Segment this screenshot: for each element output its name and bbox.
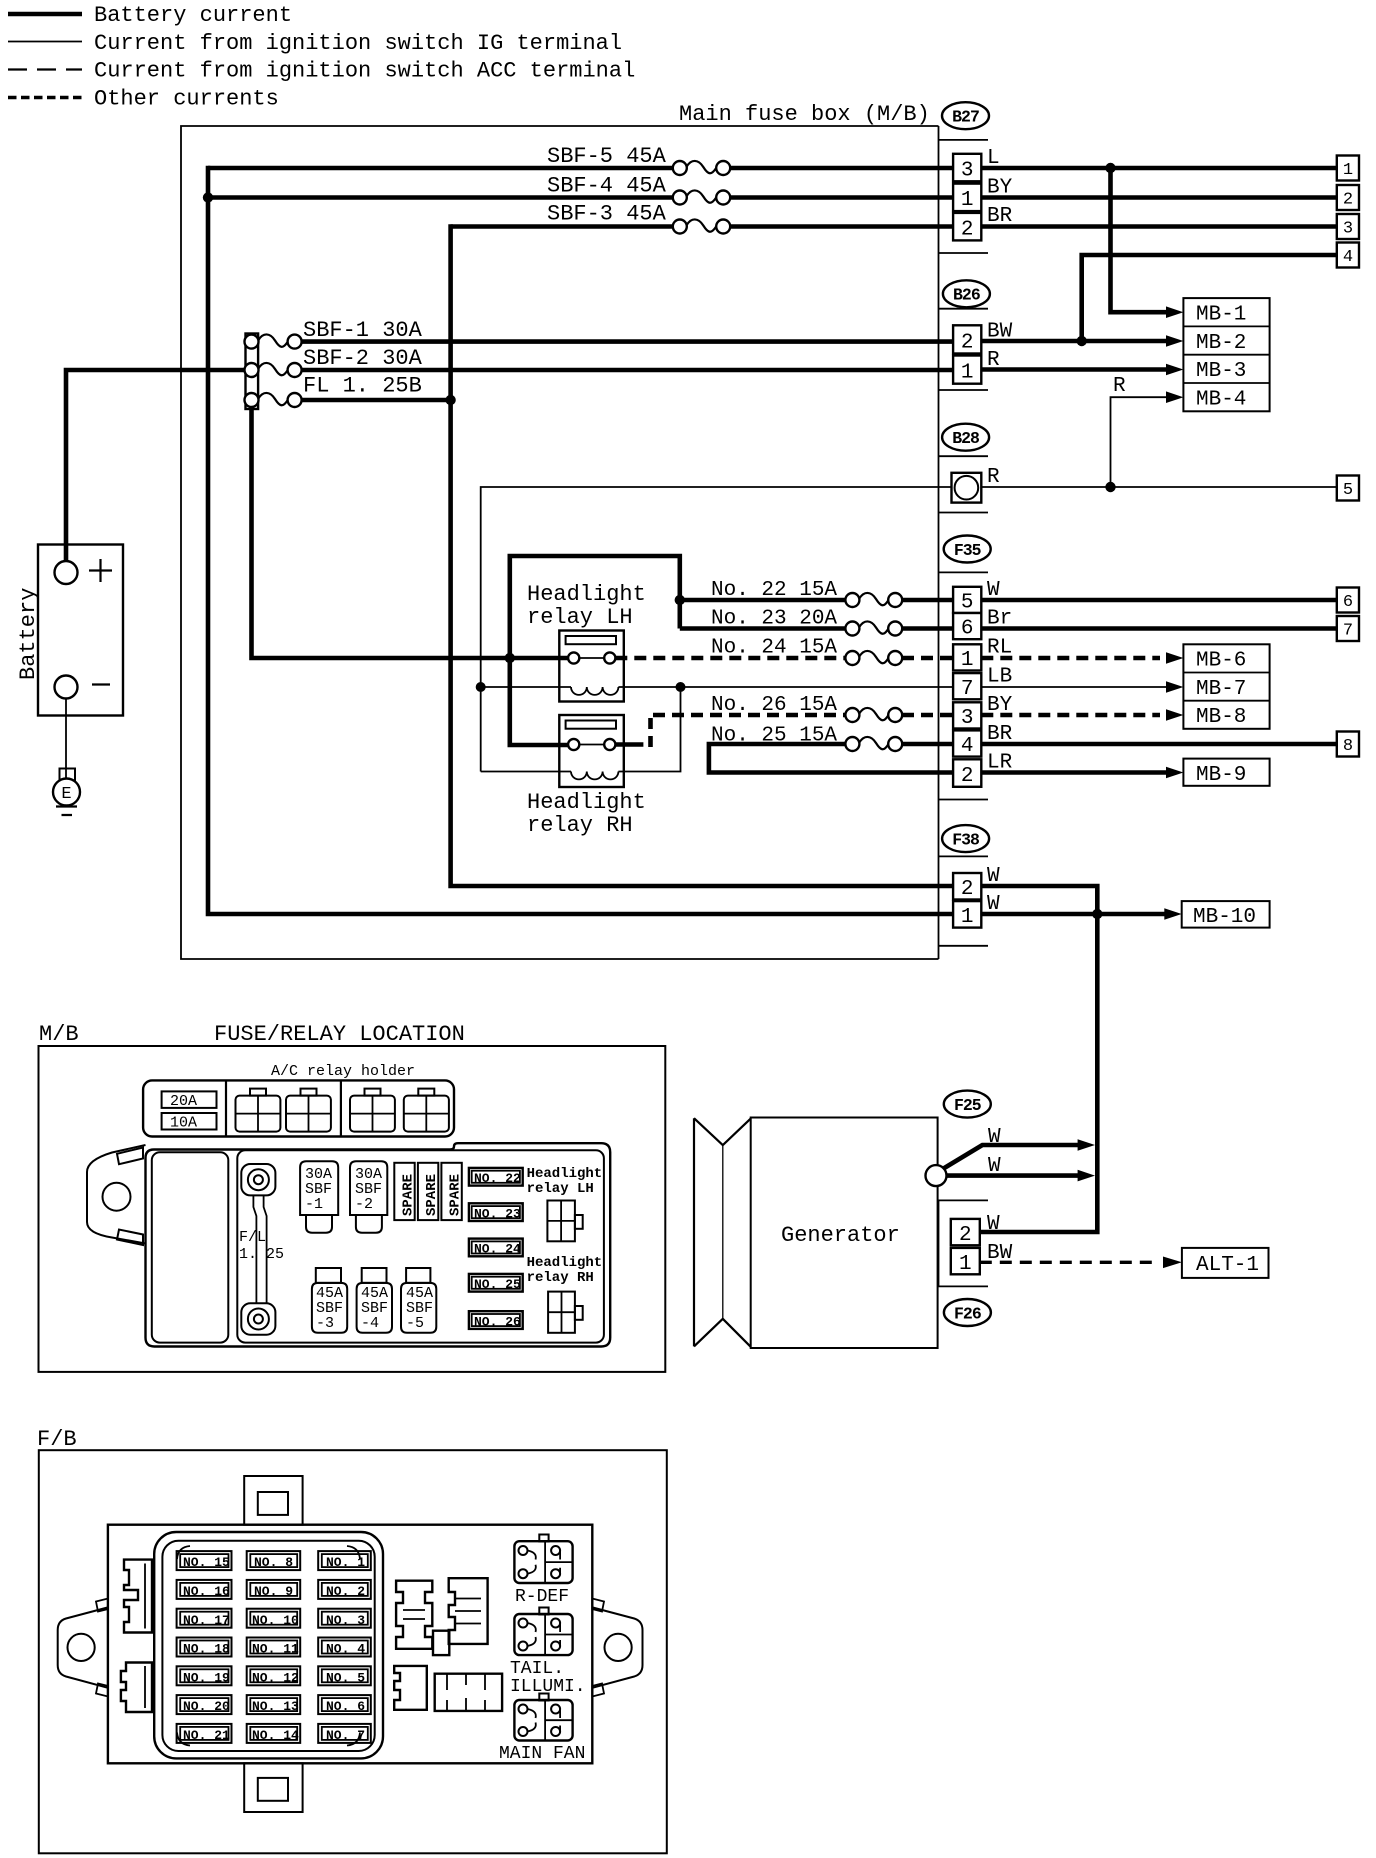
connector F38 pin 2 (953, 873, 981, 901)
F/L 1.25 link body (253, 1195, 266, 1303)
MB-10 box (1182, 901, 1270, 929)
svg-text:MB-8: MB-8 (1196, 706, 1246, 729)
svg-text:2: 2 (961, 331, 974, 354)
svg-text:NO. 22: NO. 22 (474, 1171, 521, 1186)
wire battery negative to ground (65, 699, 67, 779)
wire SBF-3 line (451, 224, 953, 229)
F/B fuse NO. 18 (177, 1638, 232, 1657)
svg-text:Headlight: Headlight (527, 790, 646, 815)
svg-text:M/B: M/B (39, 1022, 79, 1047)
svg-text:NO. 19: NO. 19 (183, 1670, 230, 1685)
F/B fuse NO. 8 (247, 1551, 301, 1570)
A/C relay holder box (143, 1080, 454, 1136)
svg-text:A/C relay holder: A/C relay holder (271, 1063, 415, 1080)
wire W F38-1 to MB-10 (981, 912, 1166, 917)
wire R branch to MB-4 (1111, 397, 1169, 487)
terminal box 6 (1337, 588, 1359, 613)
connector B26 pin 2 (953, 325, 981, 354)
A/C holder divider 2 (340, 1080, 342, 1136)
fuse No.26 15A (711, 694, 902, 722)
F/B middle small square (433, 1631, 449, 1655)
fuse No.23 20A (711, 608, 902, 636)
svg-text:No. 22 15A: No. 22 15A (711, 579, 837, 602)
connector B28 oval (942, 424, 989, 451)
wire battery positive feed (66, 370, 246, 564)
A/C relay socket 4 (404, 1089, 449, 1132)
connector F35 pin 4 (953, 730, 981, 758)
connector F38 pin 1 (953, 901, 981, 929)
legend IG sample line (8, 41, 82, 43)
battery - terminal (55, 676, 78, 699)
svg-text:relay RH: relay RH (527, 1270, 594, 1286)
M/B main compartment (237, 1150, 604, 1342)
wire Br to terminal 7 (981, 626, 1337, 631)
junction R node (1105, 482, 1115, 492)
F/B fuse NO. 13 (247, 1695, 301, 1714)
svg-text:MB-9: MB-9 (1196, 764, 1246, 787)
F/B middle connector C (394, 1666, 427, 1710)
svg-text:NO. 12: NO. 12 (252, 1670, 299, 1685)
fuse 30A SBF-2 (350, 1161, 387, 1232)
svg-text:SPARE: SPARE (448, 1174, 464, 1216)
wire BR to terminal 8 (981, 742, 1337, 747)
fuse 30A SBF-1 (300, 1161, 338, 1232)
svg-text:R-DEF: R-DEF (515, 1587, 569, 1607)
svg-text:-3: -3 (316, 1315, 334, 1332)
wire R to MB-3 (981, 367, 1168, 372)
relay RH box (559, 715, 624, 787)
junction SBF-4 tee (203, 192, 213, 202)
wire BW dashed to ALT-1 (980, 1261, 1158, 1264)
svg-text:NO. 6: NO. 6 (326, 1699, 365, 1714)
arrow into MB-6 (1166, 652, 1183, 664)
svg-text:Generator: Generator (781, 1223, 900, 1248)
wire SBF-1 output to B26 pin 2 (295, 339, 953, 344)
svg-text:NO. 10: NO. 10 (252, 1613, 299, 1628)
svg-text:MB-7: MB-7 (1196, 678, 1246, 701)
wire SBF-2 output to B26 pin 1 (295, 368, 953, 373)
generator connector spine (939, 1200, 989, 1286)
spare fuse 3 (441, 1163, 463, 1220)
svg-text:SBF-1 30A: SBF-1 30A (303, 318, 423, 343)
generator pulley (694, 1118, 751, 1347)
connector F35 oval (944, 536, 991, 563)
svg-text:MB-3: MB-3 (1196, 360, 1246, 383)
svg-text:SBF-3 45A: SBF-3 45A (547, 202, 667, 227)
svg-text:MB-1: MB-1 (1196, 304, 1246, 327)
wire generator W line upper (941, 1145, 1080, 1170)
svg-text:NO. 17: NO. 17 (183, 1613, 230, 1628)
svg-text:NO. 21: NO. 21 (183, 1728, 230, 1743)
svg-text:NO. 9: NO. 9 (254, 1584, 293, 1599)
F/B fuse NO. 6 (318, 1695, 371, 1714)
F/B fuse NO. 20 (177, 1695, 232, 1714)
F/B left connector lower (121, 1663, 152, 1713)
junction BW branch (1077, 336, 1087, 346)
wire L branch to MB-1 (1111, 168, 1169, 312)
svg-text:6: 6 (1343, 593, 1353, 612)
arrow W upper into bus (1078, 1139, 1095, 1151)
wire No.24 dashed line from relay LH output (615, 656, 953, 661)
svg-text:R: R (1113, 375, 1126, 398)
20A fuse box (162, 1091, 217, 1110)
generator output terminal circle (926, 1165, 947, 1186)
fuse SBF-2 30A (245, 346, 423, 377)
F/B fuse NO. 17 (177, 1609, 232, 1628)
F/B fuse NO. 12 (247, 1666, 301, 1685)
wire No.22 line (680, 598, 953, 603)
F/B outer frame (39, 1450, 667, 1853)
terminal box 2 (1337, 185, 1359, 210)
svg-text:NO. 14: NO. 14 (252, 1728, 299, 1743)
wire LH coil line to F35 pin 7 (481, 686, 953, 688)
A/C holder divider 1 (225, 1080, 227, 1136)
svg-text:1: 1 (961, 189, 974, 212)
wire W F38-2 to generator bus (980, 886, 1098, 1232)
svg-text:Other currents: Other currents (94, 87, 279, 112)
F/L 1.25 fusible link bottom terminal (241, 1303, 275, 1334)
svg-text:Headlight: Headlight (527, 1255, 603, 1271)
svg-text:E: E (61, 785, 71, 804)
F/B fuse NO. 7 (318, 1724, 371, 1743)
terminal box 4 (1337, 243, 1359, 268)
fuse NO.22 location (469, 1168, 523, 1186)
terminal box 7 (1337, 616, 1359, 641)
F/B relay R-DEF socket (514, 1535, 572, 1584)
wire RH coil line (481, 687, 681, 772)
fuse No.25 15A (711, 725, 902, 752)
spare fuse 1 (394, 1163, 416, 1220)
fuse NO.26 location (469, 1311, 523, 1329)
fuse 45A SBF-4 (357, 1268, 392, 1333)
main fuse box outline (181, 126, 939, 959)
svg-text:2: 2 (959, 1224, 972, 1247)
svg-text:NO. 7: NO. 7 (326, 1728, 365, 1743)
generator body (751, 1118, 938, 1349)
connector B27 pin 2 (953, 213, 981, 241)
fuse NO.23 location (469, 1203, 523, 1221)
coil headlight relay LH (571, 687, 618, 695)
F/B relay TAIL ILLUMI socket (514, 1608, 572, 1656)
svg-text:No. 24 15A: No. 24 15A (711, 637, 837, 660)
wire RL dashed to MB-6 (981, 656, 1160, 661)
F/B fuse NO. 4 (318, 1638, 371, 1657)
svg-text:SBF-2 30A: SBF-2 30A (303, 346, 423, 371)
wire FL output to node at x=450 (295, 398, 451, 403)
svg-text:NO. 25: NO. 25 (474, 1277, 521, 1292)
battery + terminal (55, 561, 78, 584)
svg-text:Battery: Battery (16, 588, 41, 680)
svg-text:TAIL.: TAIL. (510, 1659, 564, 1679)
svg-text:W: W (988, 1126, 1001, 1149)
ground bars (56, 807, 77, 816)
svg-text:F25: F25 (954, 1096, 982, 1115)
MB-1..MB-4 box (1183, 298, 1269, 411)
svg-text:NO. 2: NO. 2 (326, 1584, 365, 1599)
wire LR to MB-9 (981, 770, 1168, 775)
svg-text:Headlight: Headlight (527, 582, 646, 607)
F/B fuse NO. 11 (247, 1638, 301, 1657)
connector column spine (938, 126, 940, 959)
svg-text:-1: -1 (305, 1196, 323, 1213)
fuse SBF-4 45A (547, 174, 730, 205)
arrow into MB-4 (1166, 391, 1183, 403)
MB-6..MB-8 box (1183, 644, 1269, 729)
svg-text:2: 2 (961, 765, 974, 788)
F/B left mounting wing (58, 1599, 108, 1697)
svg-text:No. 23 20A: No. 23 20A (711, 608, 837, 631)
headlight relay LH socket (547, 1201, 582, 1242)
svg-text:2: 2 (961, 878, 974, 901)
MB-9 box (1183, 759, 1269, 787)
A/C relay socket 2 (286, 1089, 331, 1132)
wire W to terminal 6 (981, 598, 1337, 603)
fuse NO.24 location (469, 1239, 523, 1257)
arrow into MB-7 (1166, 681, 1183, 693)
wire SBF-3 feed vertical x=450.6 down to F38 pin 2 (451, 224, 953, 886)
svg-text:NO. 16: NO. 16 (183, 1584, 230, 1599)
svg-text:1: 1 (961, 906, 974, 929)
headlight relay RH socket (548, 1292, 583, 1333)
F/B middle connector A (396, 1581, 432, 1649)
F/B fuse NO. 16 (177, 1580, 232, 1599)
connector F38 oval (942, 825, 989, 852)
F/B fuse grid container outer (154, 1532, 383, 1758)
connector B28 pin (952, 473, 982, 503)
10A fuse box (162, 1113, 217, 1132)
connector B27 pin 1 (953, 184, 981, 212)
wire L to terminal 1 (981, 166, 1337, 171)
F/B bottom mounting tab (244, 1763, 302, 1812)
fuse 45A SBF-5 (401, 1268, 436, 1333)
arrow into ALT-1 (1163, 1257, 1182, 1269)
wire No.25 line with jog to F35 pin 2 (709, 744, 953, 773)
svg-text:SPARE: SPARE (401, 1174, 417, 1216)
battery box (38, 545, 123, 716)
F/B fuse NO. 10 (247, 1609, 301, 1628)
svg-text:1: 1 (961, 649, 974, 672)
F/B left connector upper (124, 1560, 152, 1633)
svg-text:6: 6 (961, 618, 974, 641)
battery + sign (89, 559, 112, 582)
svg-text:F38: F38 (952, 830, 980, 849)
battery - sign (92, 683, 110, 685)
wire relay feed riser and No.22/23 feed (510, 556, 680, 658)
A/C relay socket 3 (350, 1089, 395, 1132)
svg-text:3: 3 (961, 160, 974, 183)
svg-text:-4: -4 (361, 1315, 379, 1332)
ground E terminal cap (60, 769, 76, 781)
svg-text:NO. 18: NO. 18 (183, 1642, 230, 1657)
F/B right mounting wing (592, 1599, 642, 1697)
A/C relay socket 1 (236, 1089, 281, 1132)
arrow into MB-9 (1166, 767, 1183, 779)
svg-text:Battery current: Battery current (94, 3, 292, 28)
svg-text:MB-4: MB-4 (1196, 388, 1246, 411)
wire LB to MB-7 (981, 686, 1168, 688)
M/B outer frame (39, 1046, 666, 1372)
svg-text:Current from ignition switch I: Current from ignition switch IG terminal (94, 31, 622, 56)
F/B middle connector D (435, 1674, 502, 1711)
wire BY to terminal 2 (981, 195, 1337, 200)
F/B fuse NO. 5 (318, 1666, 371, 1685)
fuse bus bar (246, 334, 259, 410)
wire SBF-5 feed vertical x=208 down to F38 pin 1 (208, 166, 953, 914)
svg-text:NO. 20: NO. 20 (183, 1699, 230, 1714)
svg-text:-2: -2 (355, 1196, 373, 1213)
F/B fuse NO. 14 (247, 1724, 301, 1743)
svg-text:W: W (988, 1155, 1001, 1178)
svg-text:NO. 5: NO. 5 (326, 1670, 365, 1685)
wire BR to terminal 3 (981, 224, 1337, 229)
svg-text:MAIN FAN: MAIN FAN (499, 1744, 585, 1764)
svg-text:NO. 1: NO. 1 (326, 1555, 365, 1570)
svg-text:MB-6: MB-6 (1196, 650, 1246, 673)
svg-text:3: 3 (1343, 220, 1353, 239)
wire No.23 line (680, 626, 953, 631)
connector F25 pin 1 (951, 1248, 980, 1276)
arrow into MB-1 (1166, 306, 1183, 318)
svg-text:Main fuse box (M/B): Main fuse box (M/B) (679, 102, 930, 127)
generator pulley shaft line (722, 1145, 724, 1319)
svg-text:NO. 23: NO. 23 (474, 1206, 521, 1221)
wire IG feed from B28 to relay coils (481, 487, 952, 772)
wire SBF-4 line (208, 195, 953, 200)
connector B26 oval (943, 280, 990, 307)
spare fuse 2 (418, 1163, 440, 1220)
svg-text:F35: F35 (954, 541, 982, 560)
fuse SBF-1 30A (245, 318, 423, 349)
terminal box 5 (1337, 476, 1359, 501)
connector F35 pin 1 (953, 644, 981, 672)
svg-text:8: 8 (1343, 737, 1353, 756)
F/B fuse NO. 19 (177, 1666, 232, 1685)
svg-text:F/L: F/L (239, 1229, 266, 1246)
svg-text:1: 1 (959, 1253, 972, 1276)
arrow into MB-8 (1166, 709, 1183, 721)
svg-text:B27: B27 (952, 108, 979, 127)
svg-text:W: W (987, 1213, 1000, 1236)
svg-text:MB-2: MB-2 (1196, 332, 1246, 355)
wire No.26 dashed jog and line (648, 718, 653, 747)
svg-text:MB-10: MB-10 (1193, 906, 1256, 929)
junction L branch (1105, 163, 1115, 173)
svg-text:1: 1 (1343, 161, 1353, 180)
F/B fuse NO. 2 (318, 1580, 371, 1599)
svg-text:4: 4 (1343, 248, 1353, 267)
coil headlight relay RH (571, 772, 618, 780)
F/B main body (108, 1525, 592, 1764)
connector section stubs (939, 140, 989, 946)
svg-text:NO. 13: NO. 13 (252, 1699, 299, 1714)
ground E circle (53, 779, 80, 806)
M/B main body (146, 1143, 611, 1346)
svg-text:NO. 4: NO. 4 (326, 1642, 365, 1657)
F/B fuse NO. 3 (318, 1609, 371, 1628)
fuse No.22 15A (711, 579, 902, 607)
svg-text:4: 4 (961, 735, 974, 758)
svg-text:1. 25: 1. 25 (239, 1246, 284, 1263)
fuse SBF-5 45A (547, 144, 730, 175)
wire bus bottom to relay contact feed (252, 406, 579, 658)
fuse FL 1.25B fusible link (245, 374, 422, 408)
svg-text:7: 7 (1343, 622, 1353, 641)
fuse NO.25 location (469, 1274, 523, 1292)
svg-text:ALT-1: ALT-1 (1196, 1254, 1259, 1277)
svg-text:NO. 11: NO. 11 (252, 1642, 299, 1657)
arrow into MB-10 (1164, 908, 1181, 920)
arrow W lower into bus (1078, 1170, 1095, 1182)
F/B fuse NO. 15 (177, 1551, 232, 1570)
F/B fuse NO. 9 (247, 1580, 301, 1599)
legend other currents sample line (8, 96, 82, 100)
F/B fuse NO. 1 (318, 1551, 371, 1570)
fuse 45A SBF-3 (312, 1268, 347, 1333)
svg-text:-5: -5 (406, 1315, 424, 1332)
terminal box 1 (1337, 156, 1359, 181)
wire BW to MB-2 (981, 339, 1168, 344)
terminal box 3 (1337, 214, 1359, 239)
wire SBF-5 line (208, 166, 953, 171)
M/B left compartment (152, 1152, 229, 1342)
wire generator W line lower (946, 1173, 1081, 1178)
wire relay RH contact feed (510, 658, 578, 745)
junction relay feed node (505, 653, 515, 663)
svg-text:10A: 10A (170, 1115, 197, 1132)
svg-text:FUSE/RELAY LOCATION: FUSE/RELAY LOCATION (214, 1022, 465, 1047)
F/B grid corner curls (177, 1546, 360, 1746)
junction coil return node (676, 682, 686, 692)
legend battery current sample line (8, 12, 82, 17)
connector F25 pin 2 (951, 1219, 980, 1247)
svg-text:NO. 3: NO. 3 (326, 1613, 365, 1628)
svg-text:2: 2 (1343, 191, 1353, 210)
connector B27 oval (942, 102, 989, 129)
svg-text:No. 26 15A: No. 26 15A (711, 694, 837, 717)
connector F35 pin 7 (953, 673, 981, 701)
svg-text:NO. 8: NO. 8 (254, 1555, 293, 1570)
connector F35 pin 2 (953, 759, 981, 788)
svg-text:1: 1 (961, 362, 974, 385)
svg-text:NO. 15: NO. 15 (183, 1555, 230, 1570)
svg-text:Current from ignition switch A: Current from ignition switch ACC termina… (94, 59, 635, 84)
junction FL node (445, 395, 455, 405)
connector F25 oval (944, 1091, 991, 1118)
svg-text:B28: B28 (952, 429, 980, 448)
svg-text:20A: 20A (170, 1093, 197, 1110)
svg-text:No. 25 15A: No. 25 15A (711, 725, 837, 748)
F/B middle connector B (449, 1578, 488, 1644)
terminal box 8 (1337, 732, 1359, 757)
svg-text:NO. 26: NO. 26 (474, 1314, 521, 1329)
wire BW branch to terminal 4 (1082, 255, 1337, 341)
F/B relay MAIN FAN socket (514, 1694, 572, 1741)
svg-text:5: 5 (1343, 481, 1353, 500)
svg-text:F/B: F/B (37, 1427, 77, 1452)
F/B top mounting tab (244, 1476, 302, 1525)
wire BY dashed to MB-8 (981, 713, 1160, 718)
svg-text:relay LH: relay LH (527, 1181, 594, 1197)
connector B27 pin 3 (953, 154, 981, 183)
svg-text:SPARE: SPARE (424, 1174, 440, 1216)
connector F35 pin 6 (953, 613, 981, 641)
connector F26 oval (944, 1299, 991, 1326)
svg-text:FL 1. 25B: FL 1. 25B (303, 374, 422, 399)
fuse SBF-3 45A (547, 202, 730, 234)
arrow into MB-2 (1166, 335, 1183, 347)
connector F35 pin 5 (953, 587, 981, 615)
junction W node (1092, 909, 1102, 919)
